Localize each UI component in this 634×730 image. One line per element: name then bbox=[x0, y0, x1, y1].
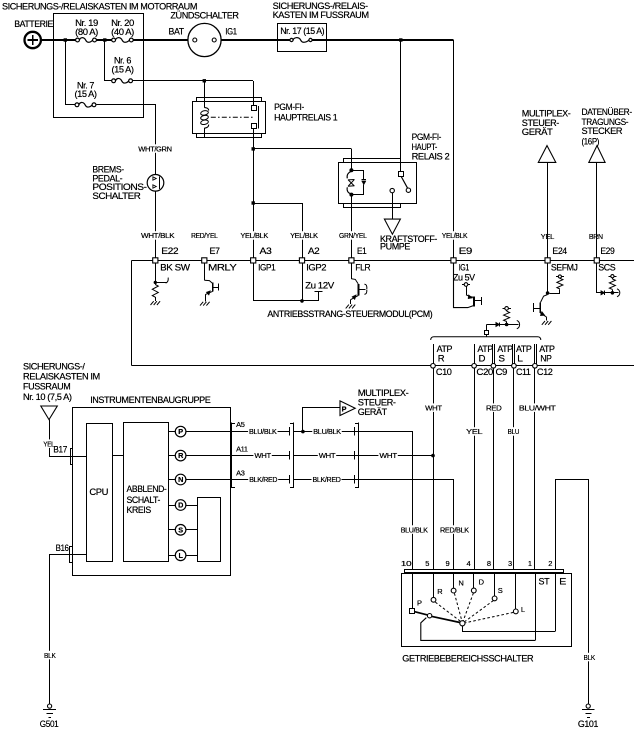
wire label BRN E29 bbox=[588, 232, 604, 241]
switch connector bar bbox=[405, 570, 564, 573]
wire label RED C9 bbox=[485, 403, 502, 412]
svg-text:10: 10 bbox=[401, 559, 412, 568]
wire relay1 switch to PCM A3 bbox=[253, 149, 255, 258]
selector blade tail to pin1 path bbox=[421, 618, 535, 641]
svg-text:FLR: FLR bbox=[355, 262, 370, 273]
svg-text:8: 8 bbox=[487, 559, 491, 568]
svg-text:FUSSRAUM: FUSSRAUM bbox=[23, 382, 71, 393]
wire C10 WHT to switch pin5 bbox=[433, 368, 435, 570]
svg-text:SICHERUNGS-/RELAISKASTEN IM MO: SICHERUNGS-/RELAISKASTEN IM MOTORRAUM bbox=[2, 1, 197, 12]
wire down to relay1 switch bbox=[253, 81, 255, 106]
ATP pullup hook end bbox=[517, 320, 520, 328]
svg-text:STECKER: STECKER bbox=[582, 126, 623, 137]
terminal B16 bracket bbox=[55, 544, 70, 552]
svg-text:E7: E7 bbox=[210, 246, 220, 257]
wires lamps P R N to connector bbox=[186, 431, 230, 433]
svg-text:BLK/RED: BLK/RED bbox=[249, 475, 278, 484]
BKSW tap with hook bbox=[155, 282, 167, 284]
svg-text:N: N bbox=[178, 475, 183, 484]
wire relay1 to relay2 coil bbox=[253, 148, 351, 150]
wire label WHT/BLK bbox=[140, 231, 175, 240]
wire label RED/BLK lower bbox=[439, 525, 470, 534]
connector pin A5 bbox=[289, 427, 291, 435]
FLR transistor Q2 bbox=[351, 279, 358, 284]
svg-text:MRLY: MRLY bbox=[208, 262, 238, 273]
wire brake switch to PCM E22 bbox=[155, 191, 157, 258]
SCS hook end bbox=[617, 289, 620, 297]
connector pin A3 bbox=[289, 475, 291, 483]
wire A5 BLU/BLK segment bbox=[231, 431, 289, 433]
contact S bbox=[492, 596, 497, 601]
wire label YEL E24 bbox=[540, 232, 555, 241]
svg-text:BLU/WHT: BLU/WHT bbox=[519, 403, 556, 412]
wire C9 RED to switch pin8 bbox=[493, 368, 495, 570]
lamp stub wires bbox=[169, 431, 176, 433]
svg-text:E9: E9 bbox=[459, 246, 472, 257]
wire WHT middle segment bbox=[294, 455, 359, 457]
svg-text:ABBLEND-: ABBLEND- bbox=[127, 484, 167, 495]
SEFMJ junction dot bbox=[546, 291, 550, 295]
svg-text:SCS: SCS bbox=[598, 262, 615, 273]
connector bracket C2 bbox=[358, 423, 360, 489]
svg-text:E: E bbox=[559, 576, 566, 587]
BKSW input wire bbox=[155, 263, 157, 285]
ATP pullup diode bbox=[487, 324, 519, 326]
connector pins row C2 bbox=[354, 427, 356, 435]
svg-text:A3: A3 bbox=[260, 246, 272, 257]
wire label BLK right bbox=[582, 653, 596, 662]
wire label BLU C11 bbox=[507, 427, 521, 436]
SCS internal wire bbox=[597, 264, 619, 293]
wire ignition IG1 to fuse 17 bbox=[221, 39, 290, 41]
relay2 coil junction bottom bbox=[349, 193, 353, 197]
IGP joining wire bbox=[253, 300, 318, 302]
svg-text:BLU: BLU bbox=[508, 427, 520, 436]
svg-text:GERÄT: GERÄT bbox=[522, 127, 553, 138]
junction node relay1 to relay2 coil bbox=[252, 147, 255, 150]
terminal E9 bbox=[451, 258, 456, 263]
MRLY transistor Q1 bbox=[204, 280, 212, 283]
svg-text:G501: G501 bbox=[40, 719, 59, 730]
IG1 5V supply circle bbox=[462, 284, 470, 286]
pin stub D bbox=[473, 574, 475, 588]
svg-text:Zu 12V: Zu 12V bbox=[305, 280, 335, 291]
wire junction to fuse Nr.7 bbox=[66, 41, 76, 105]
wires lamps D S L to driver box bbox=[186, 505, 197, 507]
svg-text:RED/YEL: RED/YEL bbox=[191, 231, 218, 240]
wire label BLU/WHT C12 bbox=[518, 403, 557, 412]
fuse Nr.7 (15A) bbox=[79, 102, 92, 107]
terminal C9 bbox=[491, 364, 496, 369]
wire switch pin2 to ground G101 bbox=[556, 480, 589, 705]
terminal C20 bbox=[472, 364, 477, 369]
wire label RED/YEL bbox=[190, 231, 218, 240]
svg-text:PGM-FI-: PGM-FI- bbox=[274, 102, 304, 113]
wire A11 WHT segment bbox=[231, 455, 289, 457]
ATP connector bracket bbox=[431, 337, 541, 340]
wire junction to fuse Nr.6 bbox=[105, 41, 112, 81]
selector blade bbox=[415, 612, 428, 615]
svg-text:E29: E29 bbox=[600, 246, 614, 257]
relay2 switch contact circles bbox=[406, 188, 410, 192]
wire branch to PCM A2 bbox=[254, 204, 303, 258]
junction dot WHT bbox=[431, 454, 435, 458]
terminal A2 bbox=[299, 258, 304, 263]
svg-text:KREIS: KREIS bbox=[127, 505, 151, 516]
pin stub L bbox=[515, 574, 517, 609]
svg-text:D: D bbox=[479, 354, 486, 365]
ATP common terminal square bbox=[485, 331, 489, 335]
svg-text:(15 A): (15 A) bbox=[75, 89, 97, 100]
footwell fuse box Nr.17 outline bbox=[278, 24, 327, 52]
relay1 dash-dot link bbox=[211, 116, 253, 118]
svg-text:ANTRIEBSSTRANG-STEUERMODUL(PCM: ANTRIEBSSTRANG-STEUERMODUL(PCM) bbox=[267, 309, 432, 319]
MRLY input wire bbox=[204, 263, 206, 280]
wire label YEL/BLK E9 bbox=[441, 231, 469, 240]
ATP common elbow bbox=[486, 325, 488, 331]
wire C20 YEL to switch pin4 bbox=[474, 368, 476, 570]
terminal E1 bbox=[349, 258, 354, 263]
svg-text:BRN: BRN bbox=[589, 232, 603, 241]
svg-text:ZÜNDSCHALTER: ZÜNDSCHALTER bbox=[170, 10, 239, 21]
wire data link to PCM E29 bbox=[596, 162, 598, 258]
multiplex tap wire bbox=[303, 408, 340, 432]
svg-text:G101: G101 bbox=[578, 719, 598, 730]
wire relay2 switch to fuel pump bbox=[392, 193, 394, 219]
junction node A3/A2 branch bbox=[252, 201, 255, 204]
wire YEL/BLK down to PCM E9 bbox=[453, 40, 455, 258]
wire into relay2 coil bbox=[351, 149, 353, 170]
dimming circuit box bbox=[124, 423, 169, 562]
svg-text:(15 A): (15 A) bbox=[112, 64, 134, 75]
pin stub E bbox=[555, 574, 557, 631]
ATP cell dividers bbox=[433, 344, 435, 365]
junction node after fuse 19 bbox=[103, 38, 106, 41]
svg-text:RED: RED bbox=[486, 403, 502, 412]
svg-text:S: S bbox=[498, 354, 504, 365]
pin stub S bbox=[494, 574, 496, 596]
battery B1 bbox=[25, 32, 41, 48]
svg-text:C20: C20 bbox=[476, 367, 493, 378]
svg-text:IG1: IG1 bbox=[225, 27, 236, 38]
svg-text:2: 2 bbox=[548, 559, 552, 568]
pin stub P bbox=[412, 574, 414, 609]
svg-text:E22: E22 bbox=[161, 246, 178, 257]
dashed ray L bbox=[465, 612, 513, 622]
selector movable contact bbox=[427, 614, 431, 618]
svg-text:GRN/YEL: GRN/YEL bbox=[339, 231, 367, 240]
svg-text:A11: A11 bbox=[236, 444, 248, 453]
fuel pump connector triangle bbox=[384, 219, 400, 234]
junction node battery feed bbox=[64, 38, 67, 41]
indicator lamp N bbox=[175, 474, 186, 485]
indicator lamp R bbox=[175, 450, 186, 461]
terminal A3 bbox=[251, 258, 256, 263]
relay2 switch fixed contact square bbox=[399, 172, 404, 177]
svg-text:BLK: BLK bbox=[583, 653, 595, 662]
ground G501 bbox=[48, 704, 52, 708]
IGP1 internal wire bbox=[253, 263, 255, 301]
svg-text:YEL/BLK: YEL/BLK bbox=[442, 231, 468, 240]
svg-text:N: N bbox=[458, 579, 463, 588]
svg-text:P: P bbox=[417, 598, 422, 607]
svg-text:YEL: YEL bbox=[466, 427, 482, 436]
CPU box bbox=[87, 424, 113, 562]
svg-text:C10: C10 bbox=[436, 367, 452, 378]
svg-text:S: S bbox=[178, 525, 183, 534]
svg-text:PUMPE: PUMPE bbox=[380, 241, 410, 252]
wire C12 BLU/WHT to switch pin1 bbox=[534, 368, 536, 570]
svg-text:KASTEN IM FUSSRAUM: KASTEN IM FUSSRAUM bbox=[273, 10, 369, 21]
IG1 emitter wire from E9 bbox=[454, 263, 474, 308]
svg-text:P: P bbox=[178, 427, 183, 436]
wire label BLK left bbox=[43, 651, 57, 660]
wire WHT to C10 junction bbox=[359, 455, 433, 457]
wire fuse6 to relays bbox=[132, 80, 253, 82]
svg-text:E24: E24 bbox=[552, 246, 567, 257]
svg-text:C11: C11 bbox=[516, 367, 531, 378]
relay1 switch blade bbox=[258, 106, 260, 128]
relay1 switch output wire bbox=[253, 129, 255, 149]
wire fuse7 to brake switch bbox=[97, 105, 156, 175]
data link connector triangle bbox=[589, 146, 605, 163]
instrument cluster box bbox=[73, 408, 231, 576]
svg-text:(80 A): (80 A) bbox=[75, 27, 98, 38]
svg-text:GETRIEBEBEREICHSSCHALTER: GETRIEBEBEREICHSSCHALTER bbox=[402, 654, 533, 665]
svg-text:HAUPTRELAIS 1: HAUPTRELAIS 1 bbox=[274, 112, 337, 123]
SCS diode bbox=[601, 291, 605, 295]
svg-text:BLU/BLK: BLU/BLK bbox=[249, 427, 277, 436]
svg-text:A2: A2 bbox=[308, 246, 320, 257]
svg-text:R: R bbox=[438, 354, 445, 365]
wire fuse20 to ignition switch BAT bbox=[133, 39, 188, 41]
wire BLK/RED middle segment bbox=[294, 479, 359, 481]
FLR ground bbox=[346, 305, 349, 309]
junction node relay1 coil feed bbox=[203, 79, 206, 82]
terminal C12 bbox=[533, 364, 538, 369]
wire label YEL bbox=[42, 439, 55, 448]
ground G101 bbox=[586, 704, 590, 708]
svg-text:Zu 5V: Zu 5V bbox=[453, 273, 476, 284]
SEFMJ input wire bbox=[547, 263, 549, 295]
svg-text:BLK: BLK bbox=[44, 651, 56, 660]
svg-text:NP: NP bbox=[540, 354, 551, 365]
wire A3 BLK/RED segment bbox=[231, 479, 289, 481]
contact L bbox=[513, 609, 518, 614]
svg-text:WHT/GRN: WHT/GRN bbox=[138, 144, 171, 153]
svg-text:IGP1: IGP1 bbox=[258, 262, 275, 273]
wire label WHT C10 bbox=[424, 403, 443, 412]
engine fuse/relay box outline bbox=[54, 14, 144, 118]
svg-text:9: 9 bbox=[445, 559, 449, 568]
dashed ray R bbox=[435, 602, 460, 621]
pin stub N bbox=[453, 574, 455, 588]
wire label GRN/YEL bbox=[338, 231, 368, 240]
svg-text:IGP2: IGP2 bbox=[306, 262, 326, 273]
svg-text:WHT: WHT bbox=[379, 451, 397, 460]
FLR input wire bbox=[351, 263, 353, 279]
svg-text:L: L bbox=[521, 605, 525, 614]
BKSW junction dot bbox=[154, 281, 157, 284]
svg-text:Nr. 10 (7,5 A): Nr. 10 (7,5 A) bbox=[23, 392, 72, 403]
BKSW ground bbox=[151, 301, 154, 305]
svg-text:3: 3 bbox=[508, 559, 512, 568]
terminal E24 bbox=[545, 258, 550, 263]
BKSW wire to ground bbox=[155, 297, 157, 301]
wire RED/BLK to switch pin9 bbox=[359, 480, 454, 570]
PGM-FI main relay 1 box bbox=[193, 102, 266, 134]
indicator lamp P bbox=[175, 426, 186, 437]
svg-text:BLK/RED: BLK/RED bbox=[313, 475, 342, 484]
svg-text:ST: ST bbox=[539, 576, 550, 587]
relay2 coil junction top bbox=[349, 168, 353, 172]
wire battery to fuse box bbox=[41, 39, 76, 41]
pin stub R bbox=[433, 574, 435, 598]
svg-text:SEFMJ: SEFMJ bbox=[551, 262, 578, 273]
fuse Nr.19 (80A) bbox=[79, 38, 92, 43]
svg-text:A5: A5 bbox=[236, 420, 245, 429]
brake pedal position switch bbox=[147, 175, 164, 192]
svg-text:4: 4 bbox=[466, 559, 470, 568]
terminal C11 bbox=[512, 364, 517, 369]
svg-text:BLU/BLK: BLU/BLK bbox=[401, 525, 428, 534]
wire C11 BLU to switch pin3 bbox=[513, 368, 515, 570]
terminal E22 bbox=[153, 258, 158, 263]
instrument connector bracket bbox=[231, 423, 233, 489]
relay2 switch blade bbox=[401, 177, 407, 189]
lamp driver box bbox=[198, 498, 221, 562]
ATP pullup resistor bbox=[506, 310, 508, 311]
svg-text:D: D bbox=[178, 501, 183, 510]
svg-text:YEL/BLK: YEL/BLK bbox=[240, 231, 268, 240]
dashed ray D bbox=[463, 593, 473, 621]
wire label WHT/GRN bbox=[137, 144, 172, 153]
svg-text:P: P bbox=[342, 404, 347, 413]
multiplex unit triangle with P bbox=[340, 401, 355, 416]
svg-text:WHT: WHT bbox=[319, 451, 336, 460]
wire BLU/BLK middle segment bbox=[294, 431, 359, 433]
svg-text:B16: B16 bbox=[56, 543, 69, 554]
ATP pullup junction dot bbox=[505, 323, 509, 327]
wire CPU to dimming circuit bbox=[112, 455, 123, 457]
fuse 10 connector triangle bbox=[41, 406, 58, 420]
pivot to pin2 path bbox=[463, 626, 556, 632]
wire junction down to relay2 switch bbox=[400, 40, 402, 172]
dashed ray S bbox=[465, 601, 494, 622]
SEFMJ pullup dot and resistor bbox=[556, 276, 564, 278]
svg-text:GERÄT: GERÄT bbox=[358, 407, 388, 418]
terminal C10 bbox=[431, 364, 436, 369]
svg-text:1: 1 bbox=[528, 559, 532, 568]
wire BLU/BLK to switch pin10 bbox=[359, 432, 413, 570]
terminal E29 bbox=[594, 258, 599, 263]
contact N bbox=[451, 588, 456, 593]
svg-text:BLU/BLK: BLU/BLK bbox=[313, 427, 341, 436]
PGM-FI main relay 2 box bbox=[339, 163, 417, 204]
relay2 coil winding bbox=[347, 171, 351, 178]
indicator lamp D bbox=[175, 500, 186, 511]
relay1 coil bbox=[204, 101, 206, 107]
PCM module outline bbox=[131, 261, 133, 366]
IGP junction dot bbox=[300, 299, 304, 303]
wire label BLU/BLK lower bbox=[400, 525, 429, 534]
to 12V stub bbox=[318, 292, 320, 301]
contact P square bbox=[410, 609, 415, 614]
wire multiplex to PCM E24 bbox=[547, 162, 549, 258]
svg-text:BK SW: BK SW bbox=[160, 262, 191, 273]
fuse Nr.20 (40A) bbox=[116, 38, 130, 43]
svg-text:RELAIS 2: RELAIS 2 bbox=[412, 152, 450, 163]
pin stub ST bbox=[535, 574, 537, 641]
wire down to relay1 coil bbox=[204, 81, 206, 101]
svg-text:SCHALTER: SCHALTER bbox=[92, 191, 141, 202]
svg-text:E1: E1 bbox=[357, 246, 366, 257]
svg-text:Nr. 17 (15 A): Nr. 17 (15 A) bbox=[280, 26, 324, 37]
svg-text:WHT/BLK: WHT/BLK bbox=[141, 231, 175, 240]
svg-text:C12: C12 bbox=[537, 367, 553, 378]
svg-text:RED/BLK: RED/BLK bbox=[440, 525, 469, 534]
wire fuse19 to fuse20 bbox=[96, 39, 111, 41]
svg-text:INSTRUMENTENBAUGRUPPE: INSTRUMENTENBAUGRUPPE bbox=[90, 395, 210, 406]
SEFMJ transistor Q4 bbox=[541, 295, 548, 303]
contact D bbox=[471, 588, 476, 593]
wire label YEL/BLK A2 bbox=[289, 231, 319, 240]
BKSW resistor bbox=[152, 285, 158, 298]
selector pivot contact bbox=[460, 621, 465, 626]
SEFMJ ground bbox=[542, 321, 545, 325]
fuse Nr.6 (15A) bbox=[116, 78, 129, 83]
connector bracket C1 bbox=[293, 423, 295, 489]
wire label YEL C20 bbox=[465, 427, 483, 436]
wire fuse10 to B17 bbox=[50, 420, 87, 457]
svg-text:A3: A3 bbox=[236, 468, 245, 477]
junction node ignition feed bbox=[399, 38, 402, 41]
svg-text:BATTERIE: BATTERIE bbox=[14, 19, 53, 30]
svg-text:(40 A): (40 A) bbox=[111, 27, 134, 38]
indicator lamp L bbox=[175, 550, 186, 561]
relay1 switch contacts bbox=[252, 106, 257, 111]
wire B16 to ground G501 bbox=[50, 555, 87, 705]
IG1 transistor Q3 bbox=[466, 286, 468, 295]
multiplex connector triangle bbox=[538, 146, 556, 163]
wire label YEL/BLK A3 bbox=[239, 231, 269, 240]
terminal E7 bbox=[202, 258, 207, 263]
SCS resistor and pullup circle bbox=[609, 279, 615, 289]
IGP2 internal wire bbox=[302, 263, 304, 301]
svg-text:C9: C9 bbox=[496, 367, 508, 378]
wire relay2 coil to PCM E1 bbox=[351, 195, 353, 258]
svg-text:B17: B17 bbox=[53, 445, 67, 456]
contact R bbox=[431, 597, 436, 602]
junction dot multiplex tap bbox=[301, 430, 305, 434]
wire fuse17 to junction bbox=[312, 39, 453, 41]
svg-text:5: 5 bbox=[425, 559, 429, 568]
svg-text:BAT: BAT bbox=[169, 27, 185, 38]
svg-text:S: S bbox=[498, 586, 503, 595]
connector pin A11 bbox=[289, 451, 291, 459]
svg-text:CPU: CPU bbox=[89, 487, 108, 498]
svg-text:YEL/BLK: YEL/BLK bbox=[290, 231, 318, 240]
indicator lamp S bbox=[175, 525, 186, 536]
SCS junction dot bbox=[611, 291, 615, 295]
ATP pullup supply circle bbox=[502, 308, 510, 310]
dashed ray N bbox=[454, 593, 461, 620]
svg-text:WHT: WHT bbox=[254, 451, 271, 460]
MRLY ground bbox=[200, 302, 203, 306]
gear switch box bbox=[402, 574, 572, 647]
svg-text:WHT: WHT bbox=[425, 403, 442, 412]
relay2 suppression diode bbox=[352, 171, 364, 180]
